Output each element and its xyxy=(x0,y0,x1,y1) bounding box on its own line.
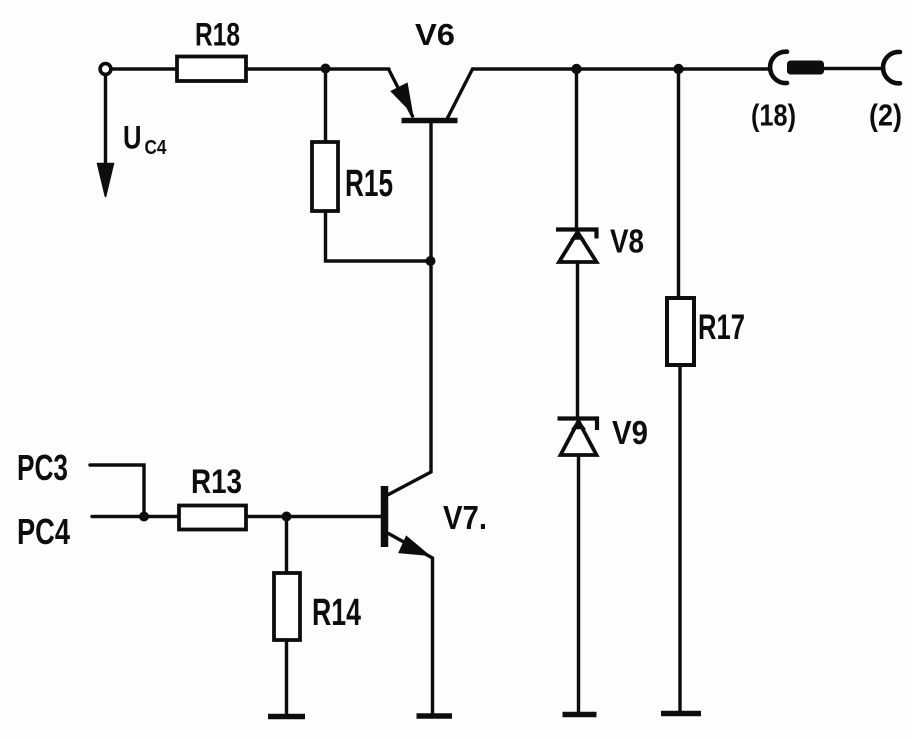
svg-text:V9: V9 xyxy=(612,414,648,451)
svg-text:(18): (18) xyxy=(751,98,796,133)
svg-text:R15: R15 xyxy=(345,163,393,205)
svg-text:PC4: PC4 xyxy=(17,511,70,552)
svg-text:C4: C4 xyxy=(145,137,168,159)
svg-text:V6: V6 xyxy=(415,17,455,52)
svg-text:U: U xyxy=(123,120,142,156)
svg-text:R17: R17 xyxy=(698,308,745,347)
svg-text:(2): (2) xyxy=(869,98,902,133)
svg-text:V8: V8 xyxy=(610,223,644,260)
svg-text:R14: R14 xyxy=(312,592,361,634)
svg-text:R13: R13 xyxy=(191,463,242,501)
svg-text:R18: R18 xyxy=(195,17,240,53)
svg-text:PC3: PC3 xyxy=(17,447,68,488)
svg-text:V7.: V7. xyxy=(443,499,487,536)
